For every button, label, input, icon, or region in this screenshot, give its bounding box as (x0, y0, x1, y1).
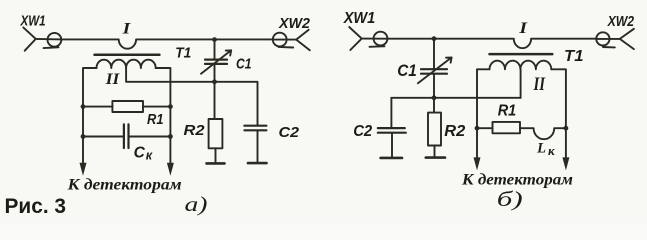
svg-text:Lк: Lк (536, 141, 555, 158)
svg-text:R1: R1 (498, 102, 517, 119)
svg-text:C2: C2 (279, 124, 300, 141)
svg-text:C1: C1 (397, 62, 417, 80)
svg-text:T1: T1 (564, 48, 584, 65)
svg-text:C2: C2 (353, 123, 372, 140)
svg-text:XW1: XW1 (20, 12, 46, 29)
svg-text:T1: T1 (175, 45, 191, 62)
svg-text:XW2: XW2 (278, 15, 311, 32)
svg-text:I: I (518, 20, 528, 37)
svg-text:К детекторам: К детекторам (66, 177, 182, 194)
svg-text:II: II (533, 75, 546, 95)
svg-text:I: I (121, 21, 131, 38)
svg-text:R1: R1 (147, 111, 164, 128)
svg-text:R2: R2 (184, 122, 206, 139)
svg-text:а): а) (185, 192, 208, 216)
svg-text:II: II (105, 71, 120, 88)
svg-text:XW1: XW1 (343, 10, 375, 27)
svg-text:C1: C1 (236, 55, 252, 72)
svg-text:б): б) (497, 187, 523, 211)
svg-text:XW2: XW2 (607, 13, 635, 30)
svg-text:R2: R2 (444, 123, 465, 140)
svg-text:Рис. 3: Рис. 3 (5, 195, 67, 218)
